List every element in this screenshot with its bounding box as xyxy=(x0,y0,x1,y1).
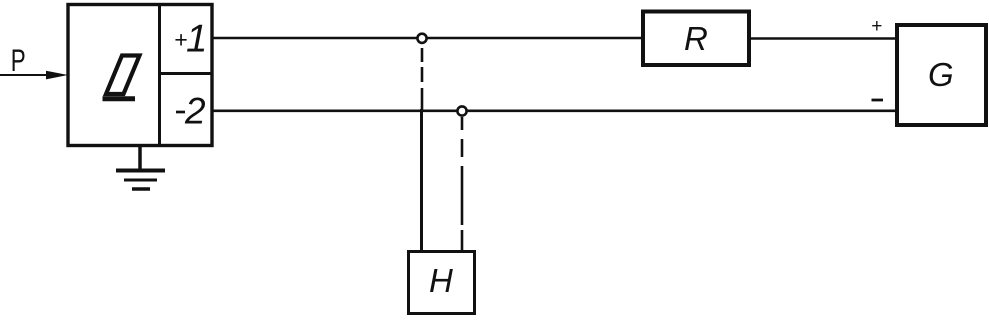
svg-text:+: + xyxy=(871,16,882,37)
svg-text:G: G xyxy=(928,56,954,93)
svg-text:H: H xyxy=(429,262,453,299)
svg-text:P: P xyxy=(11,42,26,78)
svg-text:R: R xyxy=(684,20,708,57)
svg-text:1: 1 xyxy=(186,17,207,60)
svg-text:2: 2 xyxy=(184,91,206,132)
